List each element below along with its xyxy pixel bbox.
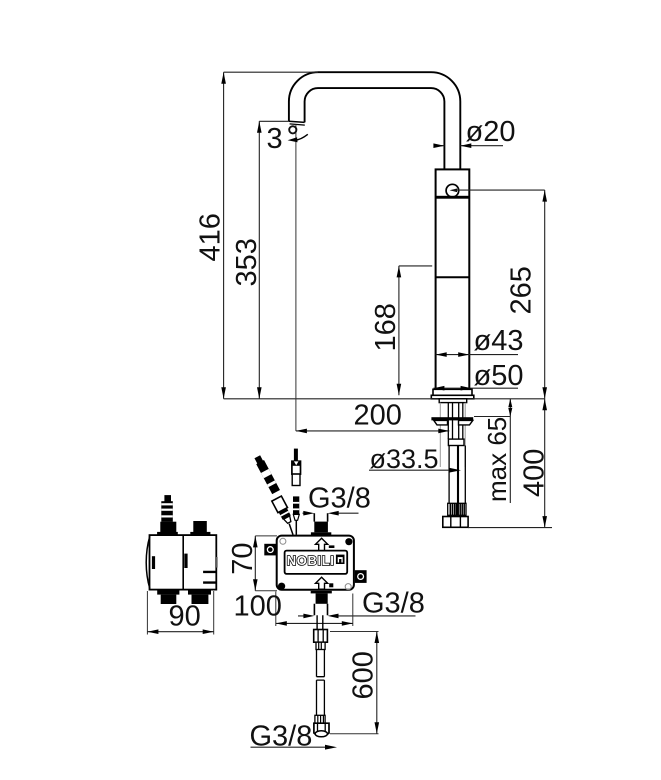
- svg-text:416: 416: [195, 213, 227, 261]
- svg-text:168: 168: [370, 303, 402, 351]
- svg-text:max 65: max 65: [482, 417, 512, 502]
- flow arrow bottom: [316, 577, 334, 589]
- dimension max 65 line: [474, 399, 512, 503]
- supply tubes upper: [448, 403, 463, 440]
- dimension 353 line: [257, 121, 289, 399]
- svg-text:ø33.5: ø33.5: [370, 444, 439, 474]
- plug upper-right vertical: [292, 449, 301, 486]
- flexible hoses under deck: [449, 446, 465, 504]
- supply hose bottom crimp: [315, 715, 325, 723]
- dimension o43: [436, 325, 524, 357]
- supply hose lower segment: [317, 680, 325, 715]
- side view top-right port: [190, 521, 210, 535]
- cable lower vertical plug: [295, 520, 297, 534]
- angle 3 deg text: [267, 123, 297, 155]
- svg-text:90: 90: [169, 600, 201, 632]
- spout inner profile: [305, 88, 445, 169]
- dimension 400 line: [468, 399, 552, 528]
- plug lower vertical: [293, 496, 299, 520]
- side view top-left port: [157, 522, 178, 535]
- dimension 100: [234, 591, 353, 626]
- svg-text:G3/8: G3/8: [308, 482, 371, 514]
- dimension 90: [147, 591, 213, 635]
- dimension G3/8 top: [303, 482, 371, 515]
- flow arrow top: [316, 538, 335, 550]
- NOBILI logo square: [336, 555, 345, 564]
- supply hose top crimp: [316, 642, 325, 649]
- dimension 265 line: [453, 190, 548, 399]
- right fixing tab: [355, 570, 367, 583]
- base flange lower: [431, 395, 474, 399]
- button circle: [446, 184, 459, 197]
- dimension G3/8 mid-right: [298, 588, 425, 620]
- dimension o50: [433, 360, 523, 392]
- front box top port: [311, 513, 331, 535]
- side view slot left: [152, 556, 155, 569]
- dimension 70: [253, 536, 277, 591]
- spout outlet end face (3 deg): [289, 121, 305, 125]
- spout outer profile: [289, 72, 460, 169]
- hose crimp fittings: [448, 503, 466, 515]
- angle 3 deg arc arrow: [288, 134, 308, 142]
- supply hose top tube: [317, 615, 323, 629]
- side view bottom-left port: [157, 590, 179, 604]
- dimension o33.5 leader: [369, 444, 461, 474]
- svg-text:70: 70: [227, 543, 259, 575]
- svg-text:ø50: ø50: [474, 360, 524, 392]
- svg-text:NOBILI: NOBILI: [287, 553, 335, 568]
- dimension 400 text: [519, 449, 551, 497]
- dimension G3/8 bottom leader: [250, 720, 338, 752]
- leader arrow into button: [450, 189, 458, 193]
- svg-text:400: 400: [519, 449, 551, 497]
- supply hose top hex nut: [314, 630, 328, 643]
- supply hose bottom hex nut: [314, 723, 329, 737]
- NOBILI label plate: [285, 551, 348, 574]
- side view jack plug: [161, 495, 173, 522]
- deck line: [224, 398, 545, 400]
- svg-text:ø43: ø43: [474, 325, 524, 357]
- mounting nut top bar: [431, 417, 473, 420]
- dimension o20: [433, 116, 515, 148]
- body joint line: [436, 276, 470, 278]
- shank collar below deck: [439, 399, 467, 403]
- mounting nut left wing: [434, 420, 448, 425]
- dimension 600: [330, 632, 379, 734]
- svg-text:G3/8: G3/8: [362, 588, 425, 620]
- left fixing tab: [264, 544, 276, 556]
- supply hose upper segment: [317, 650, 325, 677]
- dimension 265 text: [506, 266, 538, 314]
- svg-text:600: 600: [348, 651, 380, 699]
- hose end hex nuts: [443, 517, 468, 528]
- svg-text:353: 353: [231, 238, 263, 286]
- dimension 168 line: [397, 266, 433, 395]
- hose junction block: [448, 439, 464, 445]
- dimension 70 text: [227, 543, 259, 575]
- dimension 168 text: [370, 303, 402, 351]
- dimension 416 text: [195, 213, 227, 261]
- mounting nut right wing: [459, 420, 473, 425]
- side view divider: [182, 535, 184, 590]
- svg-text:200: 200: [354, 400, 402, 432]
- plug upper-left diagonal jack: [253, 455, 280, 494]
- front box outline: [277, 536, 354, 590]
- faucet body: [436, 169, 470, 389]
- svg-text:265: 265: [506, 266, 538, 314]
- front box corner screws: [278, 538, 353, 590]
- cable lower diagonal plug: [289, 524, 293, 535]
- side view slot mid: [184, 554, 187, 568]
- side view bottom-right port: [188, 590, 211, 604]
- svg-text:ø20: ø20: [466, 116, 516, 148]
- side view right notches: [203, 557, 218, 583]
- shank outer walls (o33.5): [440, 403, 465, 467]
- dimension max 65 text: [482, 417, 512, 502]
- base flange upper: [433, 389, 472, 395]
- body separator thick band: [436, 196, 470, 199]
- svg-text:3: 3: [267, 123, 283, 155]
- dimension 600 text: [348, 651, 380, 699]
- dimension 200: [296, 125, 449, 434]
- NOBILI text: [287, 553, 335, 568]
- dimension 416 line: [221, 72, 318, 399]
- dimension 353 text: [231, 238, 263, 286]
- plug lower diagonal: [272, 496, 294, 525]
- side view box outline: [146, 535, 216, 590]
- front box bottom port: [311, 591, 332, 616]
- svg-text:100: 100: [234, 591, 282, 623]
